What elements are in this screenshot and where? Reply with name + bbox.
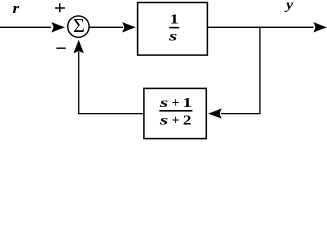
summing junction U1 (Sigma) xyxy=(68,16,89,37)
value label: fraction bar of (s+1)/(s+2) xyxy=(159,110,192,112)
block H1: feedback (s+1)/(s+2) xyxy=(144,88,206,138)
wire: feedback up to summing junction xyxy=(78,52,80,114)
wire: branch to feedback block input xyxy=(221,113,260,115)
value label: fraction bar of 1/s xyxy=(169,27,179,29)
arrowhead: into integrator block xyxy=(122,22,136,32)
arrowhead: into feedback block (pointing left) xyxy=(208,108,222,118)
svg-text:1: 1 xyxy=(170,13,179,28)
wire: integrator output to y xyxy=(207,26,313,28)
block G1: integrator 1/s xyxy=(138,3,208,56)
wire: summing junction to integrator block xyxy=(89,26,123,28)
arrowhead: up into summing junction (minus input) xyxy=(74,40,84,54)
wire: feedback block output to left xyxy=(78,113,144,115)
arrowhead: output y xyxy=(313,22,327,32)
svg-text:s+1: s+1 xyxy=(158,96,191,111)
arrowhead: input into summing junction xyxy=(52,22,66,32)
svg-text:Σ: Σ xyxy=(73,15,85,37)
wire: input r to summing junction xyxy=(0,26,51,28)
svg-text:r: r xyxy=(13,1,20,17)
minus sign at summing junction xyxy=(56,47,65,49)
wire: branch junction down from output line xyxy=(259,27,261,115)
plus sign at summing junction xyxy=(55,7,65,9)
svg-text:y: y xyxy=(284,0,294,13)
svg-text:s: s xyxy=(168,30,179,45)
svg-text:s+2: s+2 xyxy=(158,113,191,128)
